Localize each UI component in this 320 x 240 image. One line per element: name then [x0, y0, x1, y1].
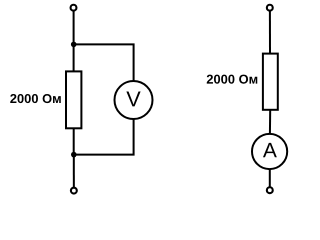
node junction (left circuit, top) [71, 42, 77, 48]
voltmeter letter V [126, 92, 140, 107]
wire (left top terminal down to top junction) [73, 11, 75, 45]
terminal (left circuit, bottom) [71, 188, 77, 194]
resistor (left, 2000 Ohm) [66, 71, 81, 128]
wire (right top terminal down to resistor) [269, 11, 271, 54]
wire (voltmeter down and left to bottom junction) [74, 119, 134, 155]
value label 2000 Ом (left resistor) [10, 94, 61, 103]
terminal (right circuit, bottom) [267, 187, 273, 193]
wire (ammeter down to right bottom terminal) [269, 169, 271, 187]
wire (bottom junction down to left bottom terminal) [73, 155, 75, 188]
node junction (left circuit, bottom) [71, 152, 77, 158]
value label 2000 Ом (right resistor) [207, 75, 258, 84]
terminal (left circuit, top) [71, 5, 77, 11]
wire (top junction down to resistor) [73, 44, 75, 71]
wire (resistor down to ammeter) [269, 110, 271, 134]
ammeter A [252, 134, 287, 169]
terminal (right circuit, top) [267, 5, 273, 11]
ammeter letter A [263, 143, 277, 157]
resistor (right, 2000 Ohm) [263, 54, 278, 110]
wire (top junction right and down to voltmeter) [74, 44, 134, 81]
wire (resistor down to bottom junction) [73, 128, 75, 154]
voltmeter V [115, 81, 153, 119]
